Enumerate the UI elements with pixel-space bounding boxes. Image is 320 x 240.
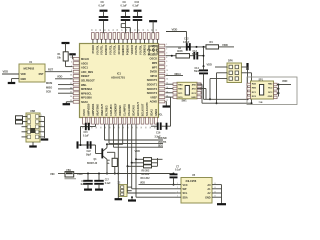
svg-text:RESET: RESET [81, 74, 90, 78]
svg-text:VDD: VDD [135, 149, 141, 153]
svg-text:24LC256: 24LC256 [186, 179, 197, 183]
svg-text:12: 12 [166, 78, 168, 80]
capacitor C12 0.1uF [183, 38, 190, 51]
wire bottom bus 103 [202, 102, 252, 104]
svg-text:AGNDREF: AGNDREF [114, 103, 118, 116]
svg-text:0.1uF: 0.1uF [175, 169, 182, 172]
svg-text:1: 1 [41, 120, 42, 122]
wire vdd tap to pin [72, 58, 74, 60]
svg-text:PLLVDD: PLLVDD [147, 45, 151, 55]
svg-text:WP: WP [183, 188, 187, 191]
svg-text:1: 1 [166, 44, 167, 46]
svg-text:MCP602: MCP602 [24, 67, 35, 71]
svg-text:AMPVDD0: AMPVDD0 [87, 103, 91, 116]
svg-text:BC807-40: BC807-40 [87, 162, 98, 165]
svg-text:RST: RST [48, 68, 54, 72]
svg-text:VOUT5L: VOUT5L [138, 45, 142, 55]
svg-text:VOUT2L: VOUT2L [108, 45, 112, 55]
svg-text:SDA0: SDA0 [81, 100, 88, 104]
svg-text:8: 8 [215, 187, 216, 189]
wire bottom bus columns [105, 124, 137, 174]
resistor R8 2K2 [135, 158, 158, 161]
svg-text:18: 18 [96, 127, 98, 129]
wire VDD rail to EEPROM [118, 173, 174, 175]
wire bottom bus 99 [204, 98, 248, 100]
svg-text:34: 34 [70, 73, 72, 76]
capacitor C15 [83, 123, 96, 138]
svg-text:0.1uF: 0.1uF [105, 183, 111, 185]
capacitor C8 0.1uF [99, 1, 109, 33]
wire R1 to MCLKI [66, 61, 73, 67]
node VDD label on VCC wire [139, 182, 176, 185]
svg-text:SDA2: SDA2 [150, 109, 154, 116]
power VDD tap small [69, 54, 76, 59]
svg-text:OSC0: OSC0 [82, 109, 86, 116]
svg-text:43: 43 [95, 29, 98, 31]
wire vref pin to riser [166, 97, 171, 126]
ground tap above U3 top pins [149, 21, 157, 33]
capacitor C5 series plates [78, 141, 92, 156]
svg-text:VOUT1L: VOUT1L [100, 45, 104, 55]
svg-text:37: 37 [122, 29, 124, 31]
svg-text:VDD: VDD [3, 69, 9, 73]
capacitor C6 10uF [80, 174, 92, 189]
svg-text:28: 28 [143, 29, 145, 31]
svg-text:VDRIVE0: VDRIVE0 [118, 105, 122, 116]
svg-text:FILTREG: FILTREG [105, 105, 109, 116]
svg-text:SDA: SDA [183, 196, 188, 199]
svg-text:0.1uF: 0.1uF [121, 5, 128, 8]
svg-text:0.1uF: 0.1uF [83, 135, 89, 137]
svg-text:VOUT0L: VOUT0L [95, 45, 99, 55]
svg-text:SDOUT2: SDOUT2 [147, 87, 158, 91]
svg-text:VDD000: VDD000 [130, 44, 134, 54]
wire EEPROM right pins to gnd [218, 185, 222, 204]
svg-text:SDATAIO: SDATAIO [132, 105, 136, 116]
svg-text:44: 44 [90, 29, 93, 31]
svg-text:3: 3 [166, 53, 167, 55]
transistor Q1 BC807-40 [87, 143, 108, 174]
svg-text:DGND01: DGND01 [143, 44, 147, 55]
ground under EEPROM [217, 203, 226, 205]
svg-text:ADC1: ADC1 [81, 66, 88, 70]
ground under USB right [41, 138, 49, 140]
svg-text:VREF: VREF [150, 95, 157, 99]
wire JP1 right col [242, 67, 253, 104]
ground under USB bottom [29, 142, 37, 147]
wire PLLFILT pin wire [166, 55, 177, 57]
svg-text:27: 27 [147, 29, 149, 31]
wire U1 gnd [12, 79, 20, 83]
svg-text:CAPLPF0: CAPLPF0 [109, 104, 113, 116]
inductor FB1 ferrite [58, 170, 76, 179]
svg-text:30: 30 [139, 29, 141, 31]
wire U3 to SW1 rows [166, 83, 202, 99]
svg-text:39: 39 [113, 29, 115, 31]
svg-text:0.1uF: 0.1uF [99, 5, 106, 8]
svg-text:VDD: VDD [207, 63, 213, 67]
svg-text:ADC0: ADC0 [81, 61, 88, 65]
node top pin boxes of U3 [90, 29, 159, 55]
svg-text:VDD: VDD [21, 73, 26, 76]
resistor pair beside USB [16, 116, 23, 124]
node frame around SP1 [247, 77, 297, 105]
wire WP to EEPROM [132, 163, 176, 189]
svg-text:SCL: SCL [183, 192, 188, 195]
svg-text:MP6: MP6 [152, 61, 158, 65]
wire SW1 right pins [197, 84, 206, 103]
connector SP1 module [251, 78, 274, 104]
wire X3 gnd [115, 174, 123, 200]
svg-text:SCLKOUT0: SCLKOUT0 [145, 102, 149, 116]
svg-text:18: 18 [146, 127, 148, 129]
svg-text:SDO: SDO [158, 144, 163, 147]
node net labels right of bus [105, 137, 167, 140]
connector JP1 DP0 header [227, 59, 242, 82]
svg-text:R10 2K2: R10 2K2 [141, 177, 151, 180]
svg-text:VDD: VDD [77, 172, 83, 176]
svg-text:MP1/SB0: MP1/SB0 [81, 96, 92, 100]
svg-text:SDOUT1: SDOUT1 [147, 83, 158, 87]
resistor R6 [107, 152, 117, 174]
svg-text:1: 1 [177, 191, 178, 193]
capacitor C16 3.3nF [151, 122, 171, 138]
wire last left pin to ground [66, 102, 73, 104]
ground under C6 [84, 189, 92, 191]
svg-text:32: 32 [134, 29, 136, 31]
svg-text:1: 1 [177, 183, 178, 185]
wire SDA to EEPROM [131, 159, 176, 198]
svg-text:1: 1 [41, 115, 42, 117]
node bottom pin boxes of U3 [82, 102, 158, 129]
svg-text:CLAMP01: CLAMP01 [123, 104, 127, 116]
wire R right common [158, 158, 163, 166]
svg-text:1: 1 [41, 135, 42, 137]
svg-text:1: 1 [227, 79, 228, 81]
svg-text:RST: RST [39, 73, 44, 76]
power VDD bar above R1 [62, 43, 70, 52]
svg-text:8: 8 [215, 196, 216, 198]
wire RST net [45, 68, 72, 72]
svg-text:ADC_RES: ADC_RES [81, 70, 93, 74]
svg-text:VOUTB: VOUTB [158, 141, 166, 144]
svg-text:PVDD0: PVDD0 [91, 44, 95, 53]
svg-text:38: 38 [117, 29, 119, 31]
wire AVDD rail [166, 32, 187, 47]
node MOSI net label [46, 82, 73, 85]
svg-text:VREFOUT: VREFOUT [100, 103, 104, 116]
svg-text:18: 18 [123, 127, 125, 129]
svg-text:18: 18 [105, 127, 107, 129]
capacitor C7 0.1uF [170, 165, 182, 185]
svg-text:5: 5 [166, 61, 167, 63]
svg-text:0.1uF: 0.1uF [133, 5, 140, 8]
node VDD label right of R4 [219, 43, 235, 47]
svg-text:VBATSNS: VBATSNS [96, 104, 100, 116]
svg-text:DP0: DP0 [228, 59, 233, 62]
ground under C17 [95, 189, 103, 191]
svg-text:C16: C16 [156, 132, 161, 135]
svg-text:WBL: WBL [81, 83, 87, 87]
svg-text:18: 18 [150, 127, 152, 129]
node VDD label left of JP1 [207, 63, 228, 67]
svg-text:DVDD00: DVDD00 [104, 44, 108, 55]
wire JP1 left row3 [209, 79, 227, 101]
svg-text:6: 6 [71, 62, 72, 64]
svg-text:DVDD: DVDD [150, 70, 157, 74]
svg-text:8: 8 [215, 183, 216, 185]
svg-text:VDD: VDD [57, 75, 63, 79]
wire cap row y145 [78, 144, 96, 146]
op-amp U5 EEPROM 24LC256 [176, 174, 218, 203]
svg-text:GND: GND [205, 196, 211, 199]
wire AVDD pin to R4 [166, 46, 207, 48]
node left pin boxes of U3 [70, 57, 95, 104]
svg-text:56nF: 56nF [192, 53, 198, 56]
svg-text:73B: 73B [259, 102, 263, 104]
svg-text:VDD: VDD [172, 28, 178, 32]
svg-text:21: 21 [156, 29, 158, 31]
capacitor C13 56nF series [190, 50, 204, 59]
svg-text:1: 1 [241, 73, 242, 75]
svg-text:1: 1 [177, 187, 178, 189]
wire VDD to U1 [2, 73, 19, 75]
wire SP1 right pins to vdd stub [247, 83, 291, 99]
svg-text:SELFBOOT: SELFBOOT [81, 79, 95, 83]
svg-text:10: 10 [166, 70, 168, 72]
svg-text:GND: GND [21, 78, 27, 81]
svg-text:18: 18 [141, 127, 143, 129]
ground right of U3 [163, 101, 171, 106]
capacitor C9 0.1uF [121, 1, 131, 33]
wire usb right down [44, 117, 46, 139]
svg-text:35: 35 [70, 57, 72, 59]
svg-text:1: 1 [41, 130, 42, 132]
wire PLL node down [203, 47, 205, 67]
svg-text:SDOUT3: SDOUT3 [147, 91, 158, 95]
svg-text:XTALGND: XTALGND [127, 104, 131, 116]
connector X3 3-pin [118, 182, 132, 196]
svg-text:AMPVDD1: AMPVDD1 [91, 103, 95, 116]
node SCK net label [46, 91, 73, 94]
svg-text:AGND: AGND [150, 100, 158, 104]
svg-text:VOUT3L: VOUT3L [113, 45, 117, 55]
capacitor bar right of JP1 [246, 63, 248, 70]
capacitor C17 [94, 174, 111, 189]
ground left-bottom of U3 [63, 103, 71, 105]
svg-text:8: 8 [215, 191, 216, 193]
capacitor C10 0.1uF [133, 1, 143, 33]
svg-text:MOSI: MOSI [46, 82, 53, 85]
svg-text:MP7: MP7 [152, 65, 158, 69]
resistor R3 PLL filter [176, 47, 190, 58]
svg-text:CLKOUT: CLKOUT [151, 45, 155, 56]
svg-text:AVDD00: AVDD00 [156, 44, 160, 54]
svg-text:1: 1 [241, 67, 242, 69]
resistor R9 2K2 [131, 161, 158, 164]
svg-text:SW1: SW1 [182, 100, 188, 103]
capacitor C14 [194, 66, 208, 99]
svg-text:LRCLKOUT: LRCLKOUT [136, 102, 140, 116]
svg-text:18: 18 [137, 127, 139, 129]
svg-text:ADAU1701: ADAU1701 [111, 76, 125, 80]
resistor R10 2K2 [127, 165, 158, 168]
svg-text:3.3nF: 3.3nF [155, 135, 162, 138]
svg-text:1: 1 [241, 79, 242, 81]
svg-text:MP9/SCL: MP9/SCL [81, 91, 92, 95]
svg-text:PGND00: PGND00 [126, 44, 130, 55]
svg-text:4K35: 4K35 [177, 50, 183, 53]
svg-text:VOL: VOL [158, 115, 163, 117]
svg-text:VDD: VDD [282, 79, 288, 83]
svg-text:BCLKOUT: BCLKOUT [141, 103, 145, 116]
svg-text:SDOUT0: SDOUT0 [147, 78, 158, 82]
svg-text:GND: GND [268, 96, 273, 98]
wire y144.5 horizontal [107, 143, 123, 145]
node right pin boxes of U3 [147, 44, 168, 104]
svg-text:24: 24 [70, 95, 72, 98]
wire JP1 left row2 [216, 73, 228, 104]
svg-text:MP8/SDA: MP8/SDA [81, 87, 92, 91]
svg-text:2: 2 [166, 48, 167, 50]
svg-text:SCK: SCK [46, 91, 51, 94]
svg-text:18: 18 [155, 127, 157, 129]
connector SW1 [177, 82, 197, 102]
node MDL0 net label [166, 73, 184, 76]
svg-text:4uF7: 4uF7 [80, 183, 86, 186]
resistor R1 pull-up [57, 52, 68, 61]
op-amp U3 main DSP IC ADAU1701 body [80, 44, 159, 118]
svg-text:42: 42 [99, 29, 102, 31]
wire VDD rail bottom [74, 173, 175, 175]
wire SCL to EEPROM [128, 166, 176, 193]
svg-text:DGND00: DGND00 [121, 44, 125, 55]
svg-text:1: 1 [227, 73, 228, 75]
wire top cap jogs [121, 24, 130, 34]
svg-text:MCLKI: MCLKI [81, 57, 89, 61]
svg-text:18: 18 [119, 127, 121, 129]
svg-text:GND: GND [191, 97, 196, 99]
svg-text:36: 36 [126, 29, 128, 31]
svg-text:IOVDD0: IOVDD0 [117, 44, 121, 54]
svg-text:18: 18 [101, 127, 103, 129]
svg-text:VOUT4L: VOUT4L [134, 45, 138, 55]
wire bottom col downs [81, 124, 89, 145]
svg-text:18: 18 [110, 127, 112, 129]
op-amp U1 supervisor MCP102 [19, 61, 45, 82]
ground stub mid-bottom [128, 197, 136, 200]
svg-text:MISO: MISO [46, 86, 52, 89]
ground under U1 [8, 82, 16, 84]
svg-text:1: 1 [41, 125, 42, 127]
svg-text:18: 18 [114, 127, 116, 129]
svg-text:VCC: VCC [183, 184, 188, 187]
svg-text:4: 4 [166, 56, 167, 59]
node VDD label mid-left [55, 75, 73, 79]
node MISO net label [46, 86, 73, 89]
svg-text:40: 40 [108, 29, 111, 31]
svg-text:VIN: VIN [50, 172, 54, 176]
svg-text:VDD: VDD [222, 43, 228, 47]
svg-text:56pF: 56pF [86, 154, 92, 156]
svg-text:1: 1 [177, 196, 178, 198]
svg-text:18: 18 [132, 127, 134, 129]
svg-text:9: 9 [166, 66, 167, 68]
svg-text:R8 2K2: R8 2K2 [142, 169, 151, 172]
svg-text:MDL0: MDL0 [175, 73, 182, 76]
connector X2 USB [22, 110, 45, 142]
svg-text:OSCO: OSCO [150, 57, 157, 61]
svg-text:MP10: MP10 [150, 74, 157, 78]
svg-text:1: 1 [227, 67, 228, 69]
resistor R4 [206, 41, 219, 49]
